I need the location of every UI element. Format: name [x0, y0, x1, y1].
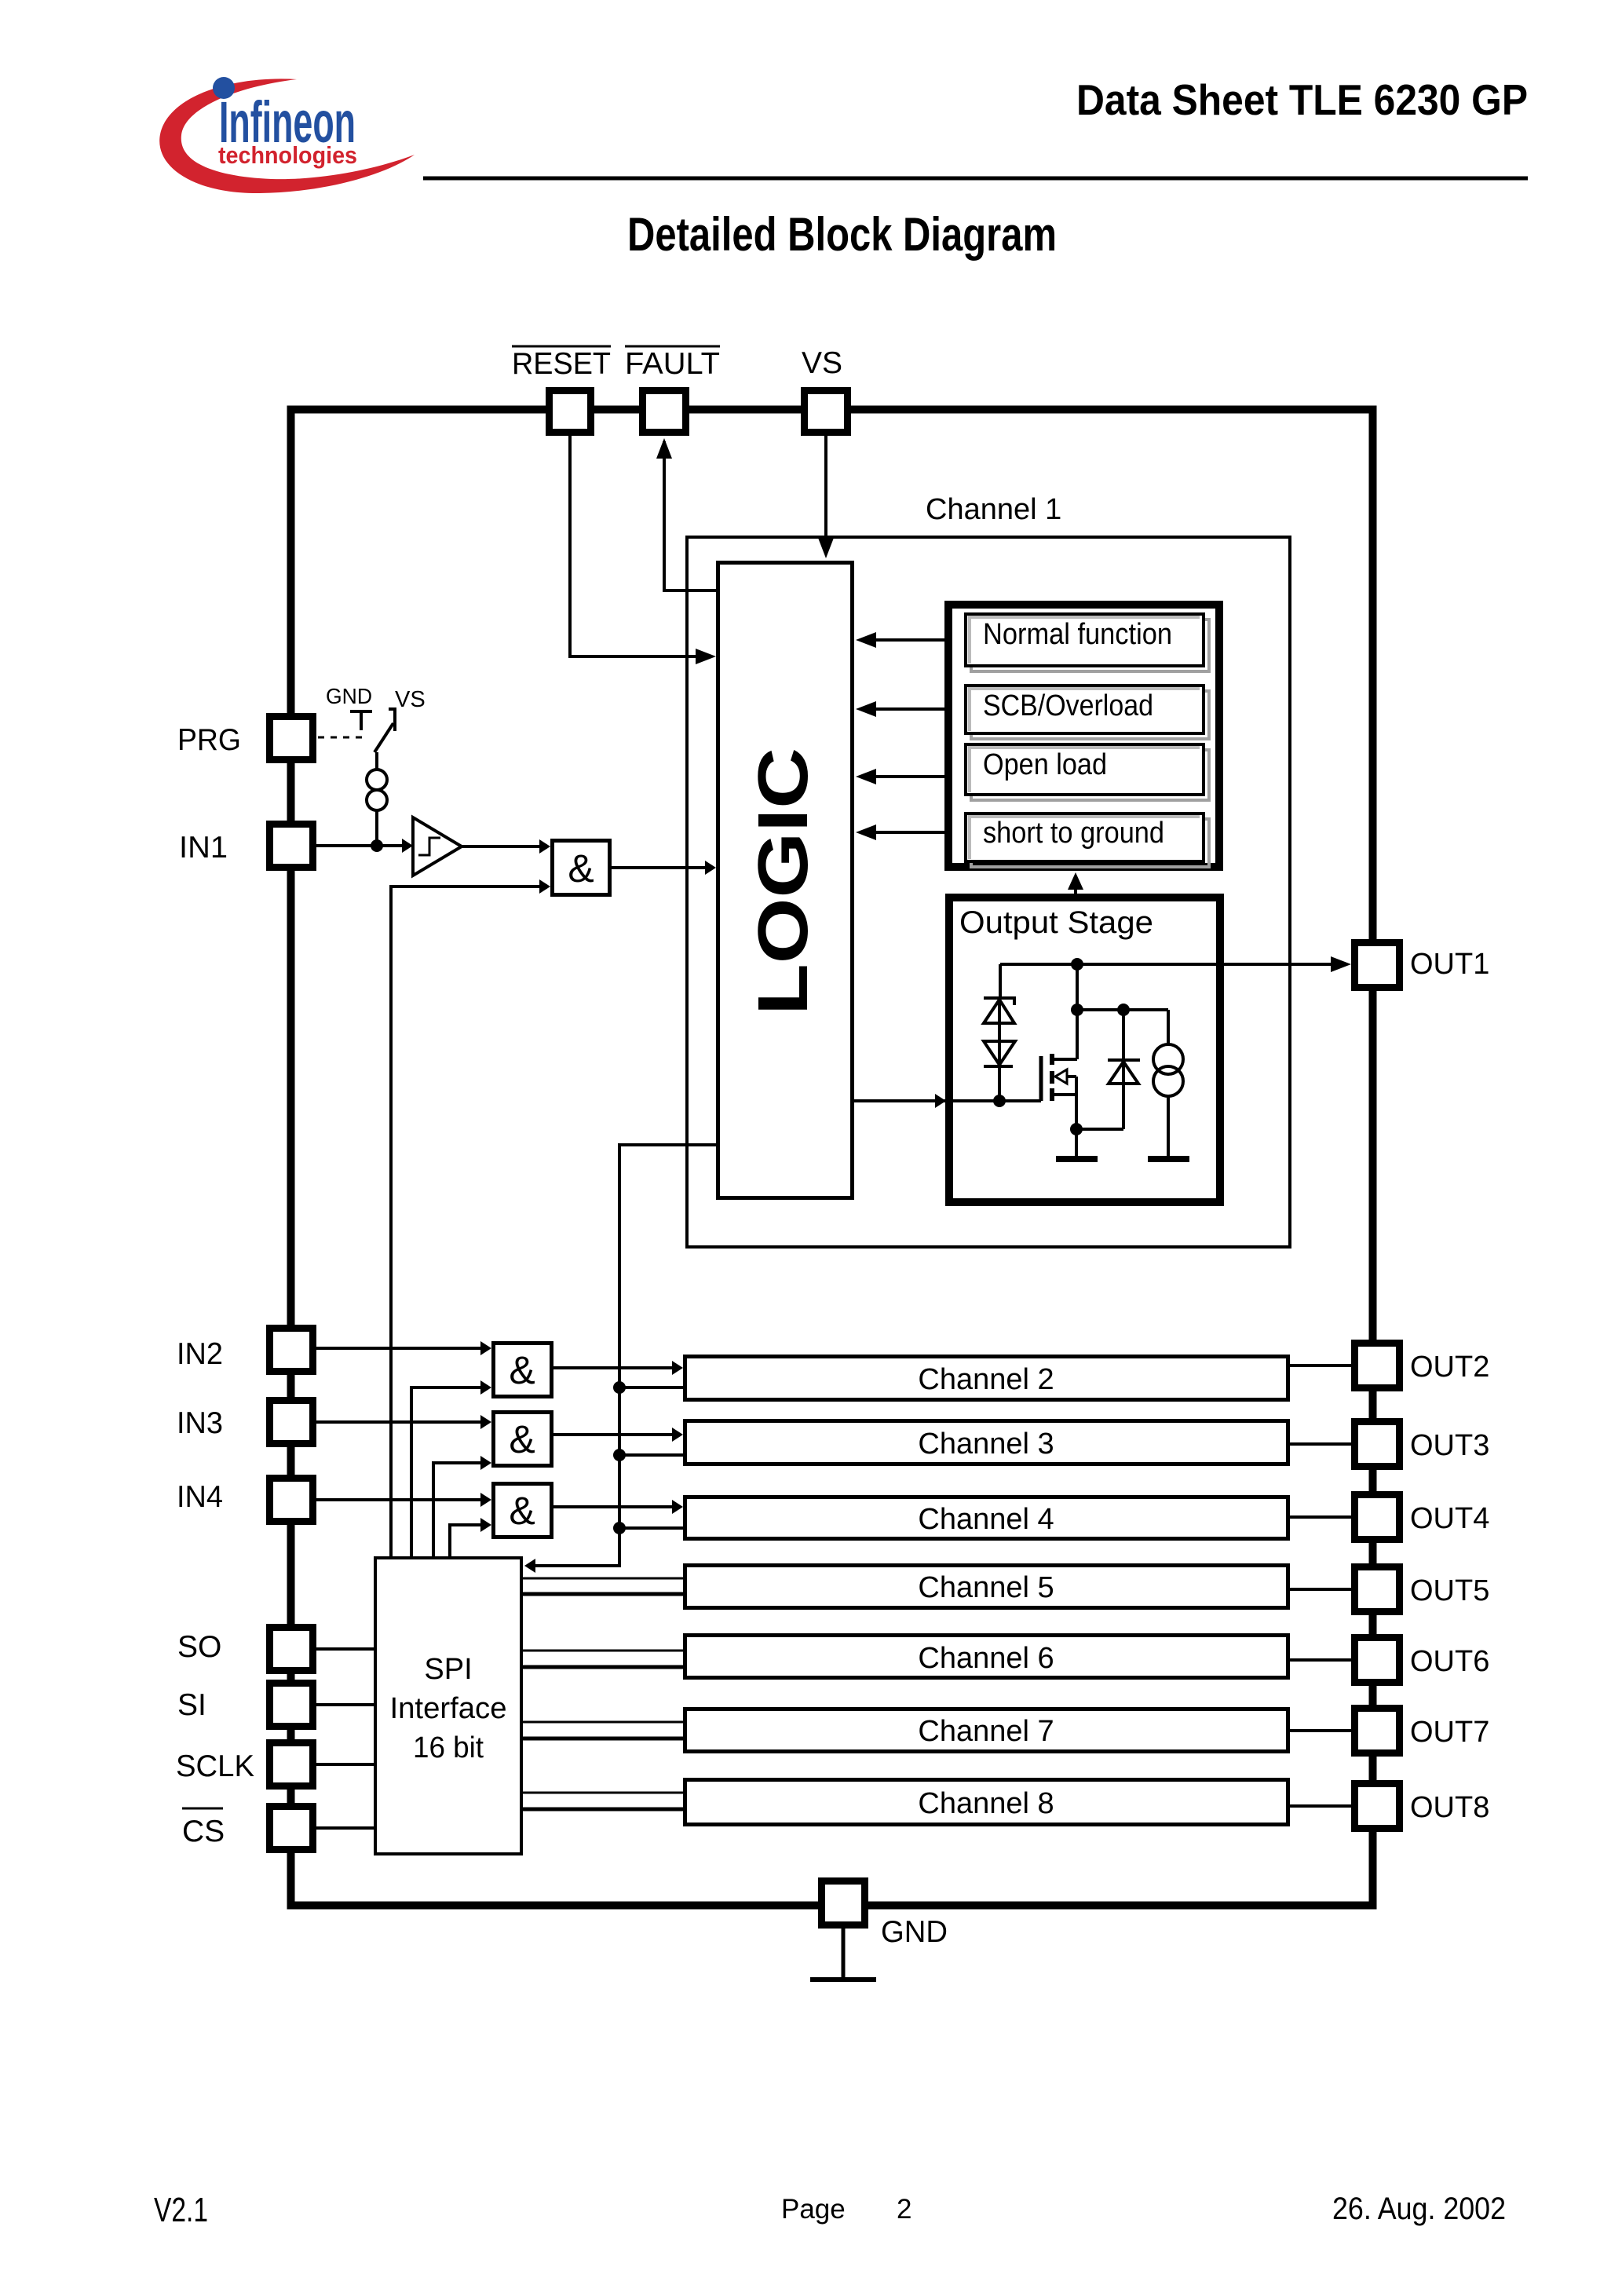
wire ch3 to OUT3 [1290, 1442, 1351, 1446]
wire output stage to status [1068, 872, 1083, 894]
wire ch4 to OUT4 [1290, 1515, 1351, 1519]
svg-text:GND: GND [326, 684, 372, 708]
wire IN3 to and3 [316, 1415, 491, 1429]
wire ch2 to OUT2 [1290, 1364, 1351, 1367]
svg-text:OUT8: OUT8 [1410, 1791, 1489, 1824]
svg-text:FAULT: FAULT [625, 347, 720, 381]
svg-text:CS: CS [182, 1815, 225, 1848]
svg-text:RESET: RESET [512, 347, 611, 381]
wire diagnosis bus [524, 1145, 716, 1573]
wire SPI bus ch8 [523, 1793, 683, 1809]
Infineon logo wordmark [219, 90, 356, 155]
wire and1 input2 [391, 879, 550, 1556]
node drain rail [1071, 1004, 1168, 1016]
wire and4 to channel4 [553, 1500, 683, 1514]
wire OUT1 net top rail [1000, 956, 1351, 972]
svg-text:Interface: Interface [390, 1692, 507, 1725]
svg-text:Open load: Open load [983, 748, 1107, 781]
svg-text:VS: VS [802, 346, 842, 380]
wire SPI bus ch5 [523, 1578, 683, 1594]
wire and3 to channel3 [553, 1428, 683, 1442]
pin OUT7 [1355, 1709, 1490, 1753]
svg-text:GND: GND [881, 1915, 948, 1949]
wire SO [316, 1647, 374, 1651]
svg-text:Channel 7: Channel 7 [918, 1715, 1054, 1748]
SPI interface block [375, 1558, 521, 1854]
channel 2 block [685, 1357, 1288, 1400]
svg-text:&: & [509, 1417, 535, 1461]
svg-text:OUT4: OUT4 [1410, 1502, 1489, 1535]
svg-text:2: 2 [897, 2194, 911, 2225]
pin OUT1 [1355, 943, 1490, 988]
wire VS net [818, 436, 834, 558]
pin SCLK [176, 1743, 313, 1786]
Infineon logo swoosh [159, 79, 415, 193]
svg-text:Channel 3: Channel 3 [918, 1428, 1054, 1461]
pin IN4 [177, 1479, 313, 1522]
channel 4 block [685, 1497, 1288, 1539]
wire RESET net [570, 436, 716, 664]
svg-text:Channel 8: Channel 8 [918, 1787, 1054, 1820]
pin OUT4 [1355, 1495, 1490, 1540]
svg-text:OUT2: OUT2 [1410, 1351, 1489, 1384]
svg-text:SCB/Overload: SCB/Overload [983, 689, 1153, 722]
wire gate drive [854, 1094, 1041, 1108]
wire schmitt to and1 [462, 839, 550, 854]
pin SI [177, 1684, 313, 1727]
pin CS [182, 1807, 313, 1850]
svg-text:OUT1: OUT1 [1410, 948, 1489, 981]
wire SCLK [316, 1763, 374, 1766]
wire ch5 to OUT5 [1290, 1588, 1351, 1591]
svg-text:Page: Page [781, 2194, 846, 2225]
status box Normal function [966, 614, 1209, 671]
wire SPI bus ch7 [523, 1722, 683, 1738]
current source I1 [1153, 1010, 1183, 1157]
svg-text:IN4: IN4 [177, 1480, 223, 1514]
ground mosfet source [1056, 1156, 1098, 1162]
wire ch7 to OUT7 [1290, 1729, 1351, 1732]
wire status to logic 3 [856, 769, 944, 784]
Infineon technologies text [218, 141, 357, 169]
svg-text:Channel 5: Channel 5 [918, 1571, 1054, 1604]
channel 6 block [685, 1636, 1288, 1678]
footer page [781, 2194, 911, 2225]
pin FAULT [625, 346, 720, 433]
output stage box [949, 898, 1220, 1202]
pin OUT6 [1355, 1638, 1490, 1683]
pin PRG [177, 717, 313, 760]
and gate 1 [553, 841, 610, 895]
pin VS [802, 346, 848, 433]
channel 7 block [685, 1709, 1288, 1752]
current source PRG [367, 752, 387, 846]
wire and4 input2 [450, 1518, 491, 1556]
wire FAULT net [656, 438, 716, 590]
svg-text:IN2: IN2 [177, 1337, 223, 1371]
svg-text:PRG: PRG [177, 723, 241, 757]
svg-text:OUT3: OUT3 [1410, 1429, 1489, 1462]
pin OUT5 [1355, 1567, 1490, 1612]
svg-text:SPI: SPI [424, 1653, 472, 1686]
Channel 1 block box [687, 537, 1290, 1247]
wire and2 to channel2 [553, 1361, 683, 1375]
svg-text:technologies: technologies [218, 141, 357, 169]
footer version [154, 2191, 208, 2229]
svg-text:Channel 1: Channel 1 [926, 493, 1061, 526]
footer date [1332, 2192, 1506, 2226]
svg-text:&: & [509, 1348, 535, 1392]
power MOSFET [1041, 964, 1077, 1157]
wire IN4 to and4 [316, 1493, 491, 1507]
wire SI [316, 1703, 374, 1706]
svg-text:LOGIC: LOGIC [744, 748, 823, 1015]
freewheeling diode [1108, 1010, 1140, 1129]
svg-text:Normal function: Normal function [983, 618, 1172, 651]
and gate 4 [494, 1484, 552, 1537]
wire bus branch ch3 [619, 1453, 683, 1457]
pin OUT2 [1355, 1344, 1490, 1388]
status box SCB/Overload [966, 686, 1209, 739]
svg-text:Channel 4: Channel 4 [918, 1503, 1054, 1536]
pin IN1 [179, 824, 313, 868]
wire ch8 to OUT8 [1290, 1804, 1351, 1808]
wire CS [316, 1826, 374, 1830]
svg-text:OUT5: OUT5 [1410, 1574, 1489, 1607]
channel 3 block [685, 1421, 1288, 1464]
Infineon logo dot [213, 77, 235, 99]
schmitt trigger U1 [413, 817, 462, 876]
page title [627, 208, 1057, 261]
svg-text:V2.1: V2.1 [154, 2191, 208, 2229]
ground symbol [810, 1929, 876, 1980]
svg-text:OUT6: OUT6 [1410, 1645, 1489, 1678]
svg-text:short to ground: short to ground [983, 817, 1164, 850]
wire bus branch ch4 [619, 1526, 683, 1530]
svg-text:Channel 6: Channel 6 [918, 1642, 1054, 1675]
label Channel 1 [926, 493, 1061, 526]
svg-text:OUT7: OUT7 [1410, 1716, 1489, 1749]
wire status to logic 1 [856, 632, 944, 648]
svg-text:IN1: IN1 [179, 831, 228, 865]
node source rail [1070, 1123, 1123, 1135]
wire SPI bus ch6 [523, 1651, 683, 1667]
header rule [423, 177, 1528, 181]
label VS switch [395, 687, 426, 712]
wire bus branch ch2 [619, 1386, 683, 1389]
pin IN3 [177, 1401, 313, 1444]
svg-text:SO: SO [177, 1630, 221, 1664]
pin GND [822, 1881, 948, 1950]
pin OUT8 [1355, 1784, 1490, 1829]
header title [1076, 75, 1528, 124]
svg-text:SI: SI [177, 1688, 206, 1722]
svg-text:Channel 2: Channel 2 [918, 1363, 1054, 1396]
wire IN1 to schmitt [316, 839, 413, 853]
ground current source [1148, 1156, 1189, 1162]
pin OUT3 [1355, 1422, 1490, 1467]
switch PRG select [318, 709, 395, 752]
wire ch6 to OUT6 [1290, 1658, 1351, 1662]
svg-text:IN3: IN3 [177, 1406, 223, 1440]
svg-text:Data Sheet TLE 6230 GP: Data Sheet TLE 6230 GP [1076, 75, 1528, 124]
svg-text:&: & [568, 846, 594, 890]
status box group [948, 605, 1219, 867]
chip outer border [291, 410, 1373, 1906]
svg-text:SCLK: SCLK [176, 1749, 254, 1783]
svg-text:26. Aug. 2002: 26. Aug. 2002 [1332, 2192, 1506, 2226]
svg-text:Detailed Block Diagram: Detailed Block Diagram [627, 208, 1057, 261]
svg-text:Output Stage: Output Stage [959, 905, 1153, 940]
wire status to logic 2 [856, 701, 944, 717]
channel 8 block [685, 1780, 1288, 1825]
wire IN2 to and2 [316, 1341, 491, 1355]
zener diode pair [984, 964, 1015, 1102]
wire and2 input2 [411, 1380, 491, 1556]
wire status to logic 4 [856, 824, 944, 840]
channel 5 block [685, 1566, 1288, 1608]
pin RESET [512, 346, 611, 433]
LOGIC block [718, 563, 853, 1198]
label GND switch [326, 684, 372, 708]
status box Open load [966, 744, 1209, 800]
pin IN2 [177, 1329, 313, 1372]
wire and3 input2 [433, 1456, 491, 1556]
svg-text:16 bit: 16 bit [413, 1731, 484, 1764]
status box short to ground [966, 813, 1209, 867]
and gate 3 [494, 1413, 552, 1466]
pin SO [177, 1628, 313, 1671]
svg-text:&: & [509, 1489, 535, 1533]
svg-text:VS: VS [395, 687, 426, 712]
wire and1 to logic [612, 861, 716, 875]
and gate 2 [494, 1344, 552, 1397]
